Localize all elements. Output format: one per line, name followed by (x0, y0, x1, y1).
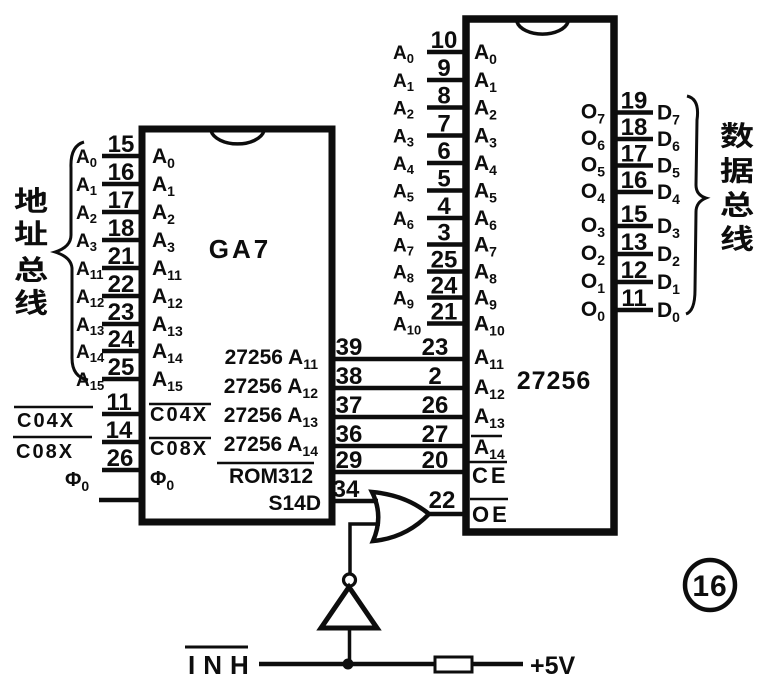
op inverter (triangle, output bubble on top) (321, 587, 377, 628)
op OR gate driving OE (372, 492, 429, 541)
svg-text:26: 26 (422, 392, 449, 419)
wire inverter input from INH line (348, 628, 352, 664)
svg-text:D3: D3 (657, 215, 680, 241)
wire GA7 unlabeled bottom-left stub (99, 498, 141, 503)
svg-text:A8: A8 (393, 263, 414, 286)
svg-text:A2: A2 (393, 99, 414, 122)
wire GA7 pin 39 to 27256 pin 23 (332, 357, 464, 362)
wire 27256 pin 16 (O4 to D4) (614, 190, 653, 195)
svg-text:O6: O6 (581, 127, 605, 153)
svg-text:A5: A5 (393, 182, 414, 205)
svg-text:A9: A9 (474, 287, 497, 313)
svg-text:26: 26 (107, 445, 134, 472)
svg-text:Φ0: Φ0 (150, 468, 174, 493)
svg-text:27256: 27256 (517, 367, 592, 395)
wire 27256 pin 8 (A2) (427, 105, 466, 110)
wire GA7 pin 26 (PHI0 clock) (102, 468, 141, 473)
svg-text:A9: A9 (393, 289, 414, 312)
svg-text:A6: A6 (474, 207, 497, 233)
svg-text:2: 2 (428, 363, 441, 390)
svg-text:C08X: C08X (16, 441, 74, 463)
wire GA7 pin 24 (A14) (102, 349, 141, 354)
svg-text:A4: A4 (474, 152, 497, 178)
svg-text:19: 19 (621, 88, 648, 115)
wire 27256 pin 3 (A7) (427, 242, 466, 247)
svg-text:A3: A3 (152, 229, 175, 255)
svg-text:21: 21 (431, 299, 458, 326)
svg-text:D0: D0 (657, 299, 680, 325)
wire GA7 pin 34 (S14D) to OR gate input (332, 499, 378, 504)
svg-text:14: 14 (106, 417, 133, 444)
svg-text:27256 A13: 27256 A13 (224, 404, 318, 430)
svg-text:27256 A12: 27256 A12 (224, 375, 318, 401)
svg-text:A2: A2 (76, 203, 97, 226)
wire 27256 pin 10 (A0) (427, 50, 466, 55)
svg-text:A7: A7 (474, 234, 497, 260)
svg-text:20: 20 (422, 447, 449, 474)
wire GA7 pin 37 to 27256 pin 26 (332, 415, 464, 420)
svg-text:27256 A14: 27256 A14 (224, 433, 318, 459)
svg-text:A3: A3 (76, 231, 97, 254)
svg-text:25: 25 (431, 247, 458, 274)
svg-text:O2: O2 (581, 242, 605, 268)
svg-text:8: 8 (437, 83, 450, 110)
wire 27256 pin 17 (O5 to D5) (614, 163, 653, 168)
svg-text:12: 12 (621, 257, 648, 284)
svg-text:A1: A1 (76, 175, 97, 198)
svg-text:27256 A11: 27256 A11 (225, 346, 319, 372)
svg-text:A11: A11 (76, 259, 103, 282)
wire 27256 pin 6 (A4) (427, 161, 466, 166)
inverter output bubble (344, 574, 356, 586)
svg-text:A15: A15 (152, 368, 183, 394)
wire GA7 pin 23 (A13) (102, 322, 141, 327)
svg-text:A14: A14 (152, 340, 183, 366)
svg-text:15: 15 (108, 131, 135, 158)
svg-text:24: 24 (431, 273, 458, 300)
svg-text:A13: A13 (474, 405, 505, 431)
wire 27256 pin 19 (O7 to D7) (614, 110, 653, 115)
svg-text:36: 36 (336, 421, 363, 448)
svg-text:A0: A0 (76, 147, 97, 170)
svg-text:A5: A5 (474, 180, 497, 206)
svg-text:3: 3 (437, 220, 450, 247)
svg-text:A3: A3 (393, 127, 414, 150)
wire GA7 pin 29 to 27256 pin 20 (332, 470, 464, 475)
svg-text:A1: A1 (474, 69, 497, 95)
svg-text:29: 29 (336, 447, 363, 474)
data bus brace (right) (686, 96, 706, 314)
svg-text:D1: D1 (657, 271, 680, 297)
svg-text:A12: A12 (76, 287, 104, 310)
svg-text:38: 38 (336, 363, 363, 390)
svg-text:A0: A0 (393, 43, 414, 66)
svg-text:27: 27 (422, 421, 449, 448)
svg-text:10: 10 (431, 27, 458, 54)
svg-text:6: 6 (437, 138, 450, 165)
wire GA7 pin 15 (A0) (102, 154, 141, 159)
svg-text:A0: A0 (152, 145, 175, 171)
svg-text:A14: A14 (474, 436, 505, 462)
svg-text:11: 11 (106, 389, 131, 416)
svg-text:C04X: C04X (17, 410, 75, 432)
svg-text:21: 21 (108, 243, 135, 270)
wire 27256 pin 25 (A8) (427, 269, 466, 274)
wire 27256 pin 7 (A3) (427, 133, 466, 138)
svg-text:22: 22 (108, 271, 135, 298)
wire OR gate second input from inverter (350, 524, 380, 575)
svg-text:O3: O3 (581, 214, 605, 240)
wire 27256 pin 12 (O1 to D1) (614, 280, 653, 285)
svg-text:16: 16 (621, 167, 648, 194)
svg-text:C04X: C04X (150, 404, 208, 426)
address bus label (vertical Chinese) (15, 187, 48, 213)
svg-text:ROM312: ROM312 (229, 465, 313, 488)
svg-text:A13: A13 (152, 313, 183, 339)
svg-text:OE: OE (472, 502, 510, 527)
svg-text:O7: O7 (581, 101, 605, 127)
svg-text:O0: O0 (581, 298, 605, 324)
svg-text:18: 18 (621, 114, 648, 141)
svg-text:A13: A13 (76, 315, 104, 338)
svg-text:15: 15 (621, 201, 648, 228)
svg-text:D7: D7 (657, 102, 680, 128)
svg-text:A12: A12 (152, 285, 183, 311)
svg-text:5: 5 (437, 166, 450, 193)
svg-text:A11: A11 (152, 257, 182, 283)
svg-text:23: 23 (422, 334, 449, 361)
wire 27256 pin 24 (A9) (427, 295, 466, 300)
svg-text:D4: D4 (657, 181, 680, 207)
wire 27256 pin 13 (O2 to D2) (614, 252, 653, 257)
svg-text:A11: A11 (474, 346, 504, 372)
svg-text:11: 11 (621, 285, 646, 312)
wire GA7 pin 25 (A15) (102, 377, 141, 382)
svg-text:D6: D6 (657, 128, 680, 154)
wire resistor to +5V (472, 662, 523, 667)
svg-text:O5: O5 (581, 154, 605, 180)
wire 27256 pin 22 OE from OR gate output (428, 512, 466, 517)
svg-text:A0: A0 (474, 41, 497, 67)
figure number 16 (circled) (685, 560, 735, 610)
svg-text:25: 25 (108, 354, 135, 381)
wire GA7 pin 11 (C04X) (102, 412, 141, 417)
svg-text:A10: A10 (393, 315, 421, 338)
svg-text:CE: CE (472, 463, 509, 488)
wire GA7 pin 14 (C08X) (102, 440, 141, 445)
27256 orientation notch (517, 22, 568, 34)
svg-text:C08X: C08X (150, 438, 208, 460)
wire 27256 pin 15 (O3 to D3) (614, 224, 653, 229)
wire GA7 pin 21 (A11) (102, 266, 141, 271)
wire GA7 pin 17 (A2) (102, 210, 141, 215)
svg-text:7: 7 (437, 111, 450, 138)
svg-text:A2: A2 (474, 97, 497, 123)
svg-text:39: 39 (336, 334, 363, 361)
wire GA7 pin 38 to 27256 pin 2 (332, 386, 464, 391)
svg-text:9: 9 (437, 55, 450, 82)
data bus label (vertical Chinese) (721, 122, 754, 148)
svg-text:37: 37 (336, 392, 363, 419)
svg-text:24: 24 (108, 326, 135, 353)
wire 27256 pin 11 (O0 to D0) (614, 308, 653, 313)
svg-text:O1: O1 (581, 270, 605, 296)
wire 27256 pin 21 (A10) (427, 321, 466, 326)
svg-text:A1: A1 (152, 173, 175, 199)
svg-text:+5V: +5V (530, 652, 576, 680)
svg-text:17: 17 (621, 141, 648, 168)
svg-text:GA7: GA7 (209, 234, 271, 264)
svg-text:18: 18 (108, 215, 135, 242)
wire INH line (259, 662, 436, 667)
wire GA7 pin 22 (A12) (102, 294, 141, 299)
address bus brace (left) (55, 142, 88, 380)
wire GA7 pin 36 to 27256 pin 27 (332, 444, 464, 449)
svg-text:A10: A10 (474, 313, 505, 339)
svg-text:23: 23 (108, 299, 135, 326)
svg-text:22: 22 (429, 487, 456, 514)
svg-text:D5: D5 (657, 155, 680, 181)
svg-text:A3: A3 (474, 125, 497, 151)
op IC U2 27256 EPROM body (466, 19, 614, 532)
svg-text:A7: A7 (393, 236, 414, 259)
svg-text:A4: A4 (393, 154, 415, 177)
svg-text:13: 13 (621, 229, 648, 256)
wire 27256 pin 18 (O6 to D6) (614, 137, 653, 142)
svg-text:16: 16 (108, 159, 135, 186)
svg-text:O4: O4 (581, 180, 605, 206)
wire 27256 pin 4 (A6) (427, 216, 466, 221)
svg-text:4: 4 (437, 193, 451, 220)
resistor R pull-up (435, 657, 472, 672)
svg-text:S14D: S14D (268, 492, 321, 515)
svg-text:A12: A12 (474, 376, 505, 402)
wire 27256 pin 5 (A5) (427, 188, 466, 193)
wire GA7 pin 16 (A1) (102, 182, 141, 187)
svg-text:A8: A8 (474, 261, 497, 287)
svg-text:A15: A15 (76, 370, 104, 393)
svg-text:A14: A14 (76, 342, 105, 365)
svg-text:17: 17 (108, 187, 135, 214)
op IC U1 GA7 body (142, 129, 332, 522)
svg-text:A1: A1 (393, 71, 414, 94)
svg-text:34: 34 (333, 476, 360, 503)
wire 27256 pin 9 (A1) (427, 78, 466, 83)
svg-text:D2: D2 (657, 243, 680, 269)
GA7 orientation notch (211, 131, 264, 144)
svg-text:A6: A6 (393, 209, 414, 232)
svg-text:16: 16 (692, 570, 727, 603)
svg-text:INH: INH (188, 650, 257, 680)
svg-text:A2: A2 (152, 201, 175, 227)
wire GA7 pin 18 (A3) (102, 238, 141, 243)
svg-text:Φ0: Φ0 (65, 469, 89, 494)
junction INH / inverter input / pull-up (343, 659, 354, 670)
